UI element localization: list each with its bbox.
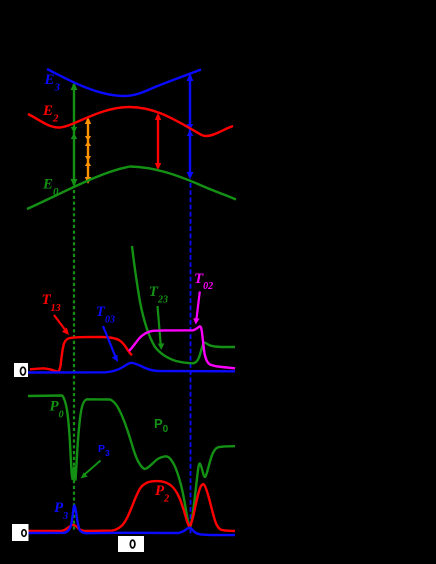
green dashed vertical line (x=74) — [73, 190, 75, 531]
curve T03 (blue transition probability) — [28, 363, 235, 373]
pointer T03 — [103, 326, 118, 362]
axis zero label (middle panel) — [21, 367, 26, 375]
blue arrow (x=190, E0 to E3, stacked double arrows) — [187, 73, 194, 179]
curve E3 (blue upper energy level) — [47, 69, 201, 96]
pointer T02 — [193, 292, 200, 325]
curve T02 (magenta transition probability) — [129, 326, 235, 368]
green pump arrow (x=74, E0 to E3, stacked double arrows) — [71, 82, 78, 187]
blue dashed vertical line (x=190.5) — [190, 183, 192, 536]
axis zero box (middle panel) — [14, 363, 28, 377]
orange arrow (x=88, E0 to E2, three stacked double arrows) — [85, 117, 91, 184]
pointer T13 — [54, 315, 69, 335]
curve P2 (red population) — [28, 481, 235, 531]
pointer arrow P3 (green) — [81, 461, 101, 479]
curve T13 (red transition probability) — [30, 337, 132, 372]
curve T23 (green transition probability) — [132, 246, 235, 363]
pointer T23 — [158, 306, 165, 350]
curve E2 (red middle energy level) — [28, 107, 233, 136]
curve P3 (blue population) — [28, 506, 235, 536]
curve P0 (green population) — [28, 396, 235, 528]
axis zero label (bottom center) — [130, 540, 135, 548]
axis zero box (bottom left) — [12, 524, 29, 541]
curve E0 (green lower energy level) — [27, 167, 236, 210]
red arrow (x=158, E2 down to E0) — [155, 113, 161, 170]
axis zero label (bottom left) — [22, 530, 26, 537]
axis zero box (bottom center) — [118, 536, 144, 552]
